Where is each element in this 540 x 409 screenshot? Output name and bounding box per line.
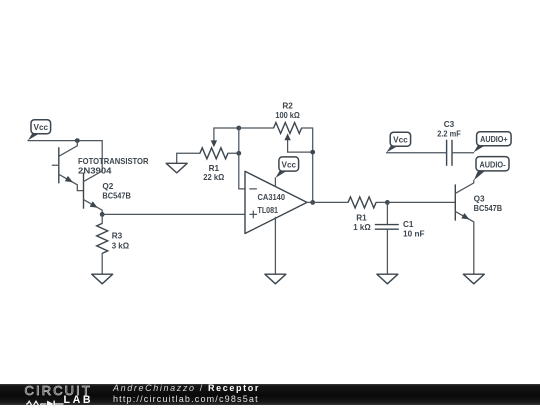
svg-text:10 nF: 10 nF bbox=[403, 230, 425, 239]
flag AUDIO+ bbox=[474, 145, 486, 152]
phototransistor (FOTOTRANSISTOR 2N3904) bbox=[52, 141, 83, 191]
op-amp U1 bbox=[245, 171, 307, 233]
node Q2 emitter junction bbox=[100, 212, 105, 217]
wire op-amp output bbox=[307, 201, 348, 203]
wire node to Q3 base bbox=[387, 201, 455, 203]
svg-text:C1: C1 bbox=[403, 220, 414, 229]
ground under op-amp bbox=[265, 274, 286, 284]
wire op-amp power stub bbox=[274, 178, 276, 187]
wire R1 wiper to node bbox=[214, 128, 239, 141]
power flag Vcc (op-amp) bbox=[275, 171, 287, 178]
ground under R3 bbox=[92, 274, 113, 284]
R2 wiper arrow bbox=[284, 133, 290, 140]
svg-text:Vcc: Vcc bbox=[34, 123, 49, 132]
svg-text:R2: R2 bbox=[282, 101, 293, 110]
svg-text:AUDIO+: AUDIO+ bbox=[480, 135, 508, 144]
wire R2 wiper down to right leg bbox=[288, 140, 313, 152]
CircuitLab logo bbox=[25, 384, 92, 397]
wire Q2 emitter node to op-amp noninverting input bbox=[102, 213, 245, 215]
ground under C1 bbox=[377, 274, 398, 284]
svg-text:R1: R1 bbox=[356, 214, 367, 223]
wire rail corner down to Q2 collector bbox=[101, 141, 103, 171]
node R1 right join bbox=[236, 151, 241, 156]
svg-text:Q2: Q2 bbox=[102, 182, 113, 191]
potentiometer R2 100k bbox=[274, 123, 302, 134]
svg-text:C3: C3 bbox=[444, 120, 455, 129]
op-amp plus symbol bbox=[250, 211, 257, 218]
svg-text:AUDIO-: AUDIO- bbox=[480, 160, 506, 169]
node wiper tie bbox=[310, 150, 315, 155]
resistor R3 bbox=[101, 214, 103, 223]
svg-text:Vcc: Vcc bbox=[282, 161, 297, 170]
op-amp minus symbol bbox=[250, 188, 257, 190]
power flag Vcc (input stage rail) bbox=[28, 133, 40, 140]
footer title text bbox=[113, 383, 260, 405]
transistor Q3 bbox=[455, 180, 474, 274]
transistor Q2 bbox=[84, 171, 103, 214]
wire R1 right terminal to node bbox=[228, 152, 239, 154]
svg-text:3 kΩ: 3 kΩ bbox=[112, 241, 130, 250]
ground at R1 left bbox=[177, 153, 200, 163]
ground under Q3 bbox=[463, 274, 484, 284]
wire R2 right terminal bbox=[302, 128, 313, 202]
R1 wiper arrow bbox=[211, 140, 217, 147]
svg-text:100 kΩ: 100 kΩ bbox=[275, 111, 300, 120]
svg-text:2.2 mF: 2.2 mF bbox=[437, 129, 461, 138]
node output / R2 leg bbox=[310, 200, 315, 205]
wire R1 to C1 node bbox=[376, 201, 387, 203]
potentiometer R1 22k bbox=[200, 148, 228, 159]
svg-text:R1: R1 bbox=[209, 164, 220, 173]
resistor R1 1k bbox=[348, 197, 376, 208]
svg-text:1 kΩ: 1 kΩ bbox=[353, 223, 371, 232]
svg-text:FOTOTRANSISTOR: FOTOTRANSISTOR bbox=[78, 157, 149, 166]
node phototransistor collector tap bbox=[75, 138, 80, 143]
wire Vcc rail bbox=[28, 140, 102, 142]
svg-text:22 kΩ: 22 kΩ bbox=[203, 173, 224, 182]
svg-text:R3: R3 bbox=[112, 232, 123, 241]
svg-text:Q3: Q3 bbox=[474, 195, 485, 204]
svg-text:TL081: TL081 bbox=[258, 206, 279, 215]
flag AUDIO- bbox=[474, 170, 486, 180]
node R1/C1/Q3 base bbox=[385, 200, 390, 205]
wire node down to inverting input bbox=[239, 128, 245, 189]
svg-text:BC547B: BC547B bbox=[102, 192, 131, 201]
capacitor C1 bbox=[386, 202, 388, 224]
wire C3 to AUDIO+ bbox=[453, 152, 474, 154]
capacitor C3 bbox=[446, 140, 448, 166]
wire Vcc to C3 bbox=[387, 152, 446, 154]
node R2 left / wiper join bbox=[236, 126, 241, 131]
svg-text:CA3140: CA3140 bbox=[258, 193, 286, 202]
svg-text:Vcc: Vcc bbox=[393, 136, 408, 145]
svg-text:BC547B: BC547B bbox=[474, 204, 503, 213]
wire node to R2 left bbox=[239, 127, 274, 129]
power flag Vcc (output coupling) bbox=[387, 146, 399, 153]
wire op-amp negative supply down bbox=[274, 217, 276, 274]
